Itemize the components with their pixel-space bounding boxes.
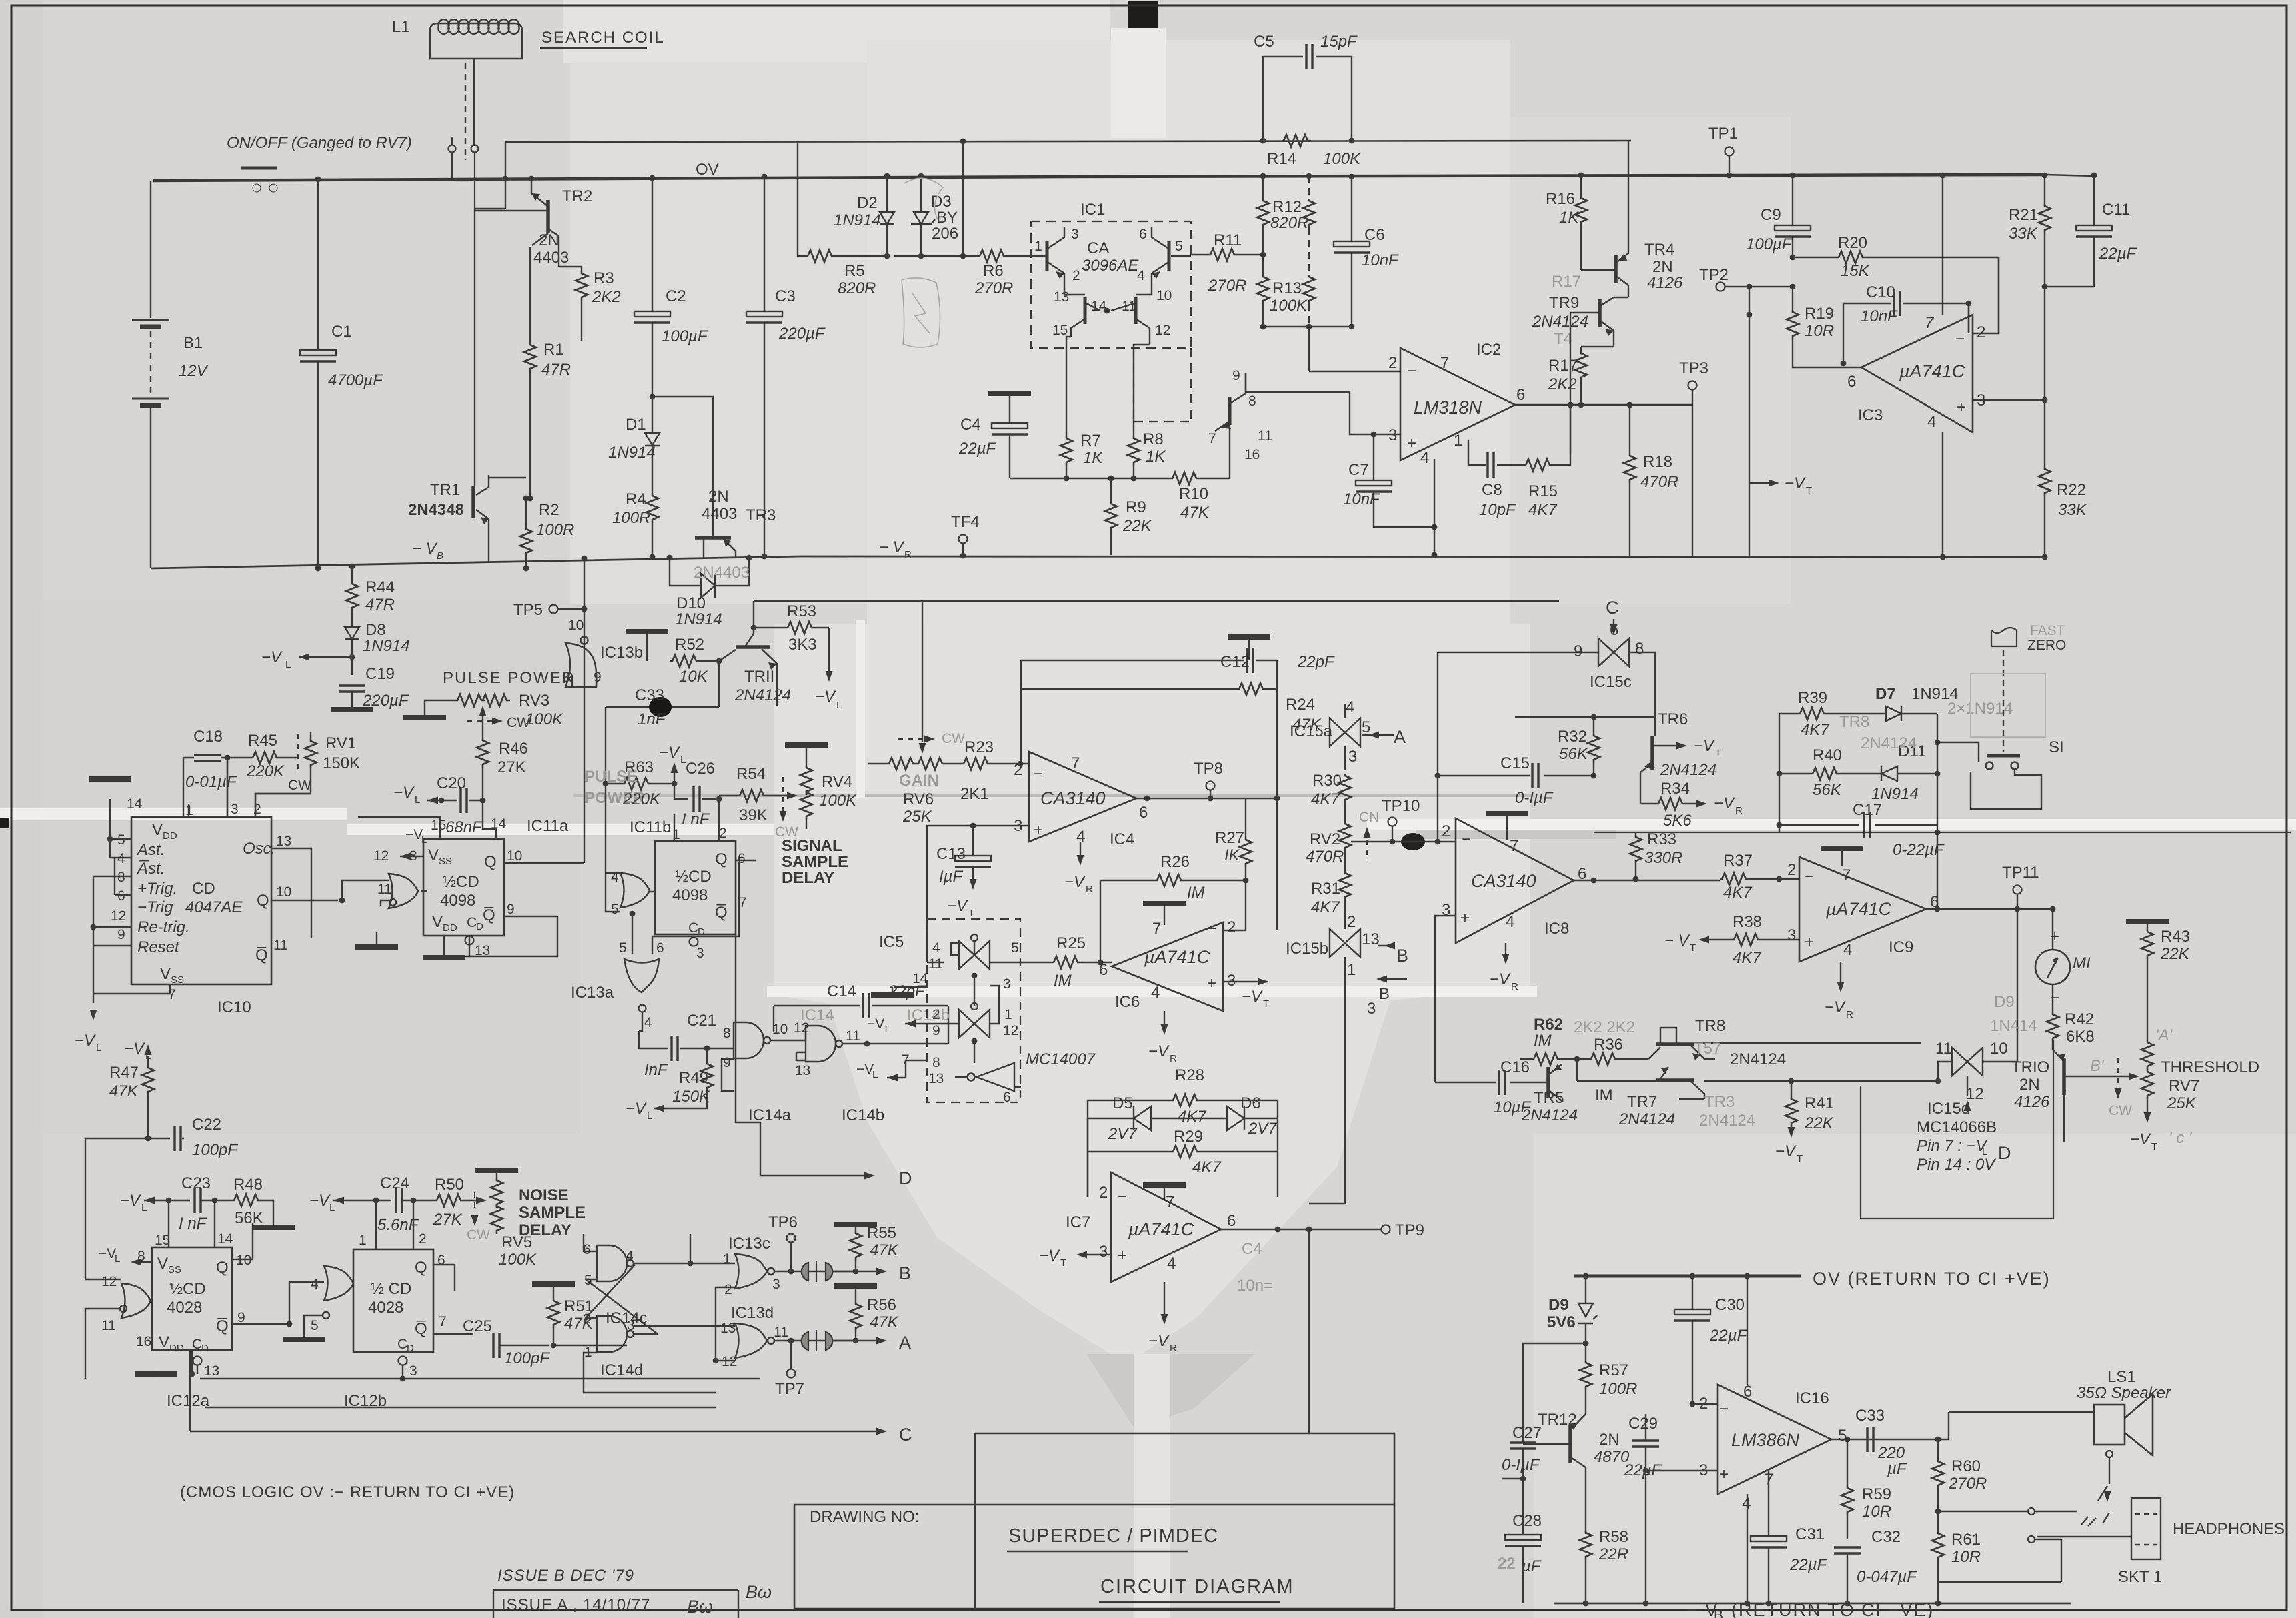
- svg-text:T: T: [1806, 485, 1812, 496]
- svg-text:V: V: [157, 1255, 168, 1273]
- svg-text:IC4: IC4: [1110, 830, 1134, 848]
- svg-text:TR6: TR6: [1658, 710, 1688, 728]
- svg-text:2: 2: [1347, 913, 1356, 931]
- svg-text:IC5: IC5: [879, 933, 904, 951]
- svg-text:R43: R43: [2161, 928, 2190, 946]
- svg-text:100µF: 100µF: [1746, 235, 1793, 253]
- svg-text:TR5: TR5: [1534, 1089, 1564, 1107]
- svg-text:C6: C6: [1364, 226, 1385, 244]
- svg-text:0-IµF: 0-IµF: [1515, 789, 1554, 807]
- SR cross wiring: [584, 1234, 735, 1393]
- svg-text:2N4124: 2N4124: [1730, 1050, 1786, 1068]
- IC12b box: [353, 1249, 433, 1352]
- svg-text:B: B: [1379, 985, 1390, 1003]
- speaker LS1: [1938, 1412, 2094, 1439]
- svg-text:6: 6: [1139, 227, 1147, 242]
- svg-text:4098: 4098: [440, 892, 475, 910]
- gate IC11b input nor: [620, 873, 650, 908]
- svg-text:TR8: TR8: [1839, 713, 1869, 731]
- svg-text:IC15d: IC15d: [1927, 1100, 1970, 1118]
- gate IC14c nand: [597, 1245, 634, 1281]
- svg-text:2K2 2K2: 2K2 2K2: [1574, 1018, 1635, 1036]
- svg-text:2N4124: 2N4124: [1699, 1112, 1755, 1130]
- switch coil contacts: [449, 137, 479, 209]
- svg-text:10nF: 10nF: [1861, 307, 1898, 325]
- svg-text:6: 6: [1003, 1090, 1011, 1105]
- svg-text:−V: −V: [405, 827, 423, 842]
- connector jack B: [802, 1261, 833, 1282]
- svg-text:C24: C24: [380, 1174, 409, 1192]
- svg-text:Q: Q: [415, 1259, 427, 1277]
- svg-text:IC11a: IC11a: [527, 817, 569, 835]
- svg-text:R36: R36: [1594, 1036, 1623, 1054]
- svg-text:MI: MI: [2073, 954, 2091, 972]
- svg-text:3: 3: [1388, 426, 1397, 444]
- svg-text:4K7: 4K7: [1192, 1158, 1222, 1176]
- svg-text:0-IµF: 0-IµF: [1502, 1456, 1540, 1474]
- svg-text:½CD: ½CD: [169, 1280, 206, 1298]
- svg-text:22K: 22K: [1122, 517, 1152, 535]
- svg-text:56K: 56K: [235, 1209, 263, 1227]
- battery B1 12V: [132, 181, 169, 568]
- svg-text:4K7: 4K7: [1311, 790, 1340, 808]
- svg-text:C13: C13: [936, 845, 966, 863]
- svg-text:R17: R17: [1552, 273, 1581, 291]
- svg-text:25K: 25K: [902, 808, 932, 826]
- svg-text:D8: D8: [365, 621, 386, 639]
- svg-text:−V: −V: [309, 1192, 331, 1210]
- svg-text:2N: 2N: [539, 231, 559, 249]
- svg-text:10: 10: [568, 618, 584, 633]
- svg-text:IC12a: IC12a: [167, 1392, 210, 1410]
- node -VL arrow left of D8: [299, 656, 352, 658]
- svg-text:IC15b: IC15b: [1286, 940, 1328, 958]
- svg-text:10: 10: [1990, 1040, 2008, 1058]
- svg-text:L: L: [421, 834, 427, 846]
- svg-text:4: 4: [1506, 913, 1514, 931]
- svg-text:4K7: 4K7: [1311, 898, 1340, 916]
- svg-text:SKT 1: SKT 1: [2118, 1568, 2162, 1586]
- switch IC15a: [1330, 718, 1360, 746]
- IC8 pin4 arrow: [1505, 943, 1506, 960]
- svg-text:14: 14: [491, 816, 507, 832]
- svg-text:DELAY: DELAY: [519, 1221, 571, 1239]
- svg-text:R27: R27: [1215, 829, 1244, 847]
- svg-text:−V: −V: [1694, 737, 1715, 755]
- pot RV6 25K (GAIN): [887, 758, 916, 770]
- svg-text:10nF: 10nF: [1343, 490, 1380, 508]
- svg-text:0-047µF: 0-047µF: [1857, 1568, 1917, 1586]
- resistor R47 47K: [142, 1066, 154, 1095]
- svg-text:R32: R32: [1558, 728, 1587, 746]
- svg-text:3: 3: [696, 946, 704, 961]
- svg-text:−: −: [1805, 868, 1814, 886]
- svg-text:R60: R60: [1951, 1457, 1981, 1475]
- svg-text:B1: B1: [183, 334, 203, 352]
- svg-text:100pF: 100pF: [192, 1141, 238, 1159]
- svg-text:12: 12: [722, 1354, 737, 1369]
- capacitor C6 10nF: [1351, 177, 1352, 327]
- svg-text:IC14d: IC14d: [600, 1361, 643, 1379]
- wire 0V rail: [153, 175, 2046, 181]
- svg-text:C32: C32: [1871, 1528, 1901, 1546]
- svg-text:2: 2: [724, 1282, 732, 1297]
- IC9 output: [1926, 908, 2053, 910]
- svg-text:8: 8: [932, 1055, 940, 1070]
- capacitor C4 22uF: [988, 393, 1031, 394]
- svg-text:22R: 22R: [1598, 1545, 1628, 1563]
- diode D2 1N914: [880, 176, 894, 256]
- wire Q6 out: [736, 860, 756, 861]
- svg-text:µA741C: µA741C: [1825, 899, 1892, 919]
- svg-text:1K: 1K: [1083, 449, 1103, 467]
- svg-text:µA741C: µA741C: [1899, 361, 1965, 381]
- collage seams (white): [0, 808, 347, 820]
- svg-text:R56: R56: [867, 1296, 896, 1314]
- socket SKT1 headphones: [2094, 1498, 2161, 1559]
- svg-text:C1: C1: [331, 323, 352, 341]
- feedback vertical to IC15b: [1276, 660, 1278, 930]
- svg-text:9: 9: [117, 927, 125, 942]
- capacitor C33 1nF (inked blob): [606, 706, 719, 708]
- resistor R28 4K7 loop: [1088, 1100, 1278, 1197]
- svg-text:C7: C7: [1348, 461, 1369, 479]
- svg-text:3: 3: [772, 1277, 780, 1292]
- wire TR8 collector line to D9 box: [1720, 1042, 1921, 1044]
- svg-text:R29: R29: [1174, 1128, 1203, 1146]
- svg-text:C20: C20: [437, 774, 466, 792]
- svg-text:1N914: 1N914: [834, 211, 881, 229]
- svg-text:R58: R58: [1599, 1528, 1628, 1546]
- svg-text:R8: R8: [1143, 430, 1164, 448]
- svg-text:470R: 470R: [1640, 473, 1678, 491]
- svg-text:SAMPLE: SAMPLE: [782, 853, 848, 871]
- wire IC16 out: [1831, 1439, 1938, 1440]
- svg-text:DRAWING NO:: DRAWING NO:: [810, 1508, 919, 1526]
- svg-text:3: 3: [1003, 976, 1011, 992]
- svg-text:47K: 47K: [870, 1313, 899, 1331]
- svg-text:12V: 12V: [179, 362, 209, 380]
- gate IC14b nand: [806, 1026, 842, 1062]
- wire 0V return rail: [1574, 1275, 1801, 1278]
- svg-text:11: 11: [846, 1028, 860, 1044]
- inductor L1 search coil: [430, 19, 522, 160]
- svg-text:InF: InF: [644, 1061, 668, 1079]
- wire IC12b Q6 out: [433, 1265, 473, 1334]
- svg-text:100K: 100K: [819, 792, 857, 810]
- svg-text:6: 6: [1139, 804, 1148, 822]
- svg-text:330R: 330R: [1644, 849, 1682, 867]
- power bar below C19: [331, 709, 373, 710]
- svg-text:DD: DD: [163, 830, 177, 842]
- wire -VB return rail: [1554, 1603, 2071, 1605]
- svg-text:R16: R16: [1546, 190, 1575, 208]
- svg-text:11: 11: [1122, 299, 1136, 314]
- transistor TR9 2N4124: [1570, 297, 1628, 347]
- svg-text:V: V: [160, 965, 171, 983]
- svg-text:R40: R40: [1813, 746, 1842, 764]
- svg-text:22pF: 22pF: [1297, 653, 1335, 671]
- svg-text:10: 10: [236, 1253, 251, 1268]
- svg-text:22µF: 22µF: [958, 440, 997, 458]
- transistor TR1 2N4348: [473, 209, 489, 562]
- svg-text:5: 5: [117, 832, 125, 848]
- svg-text:1N414: 1N414: [1990, 1017, 2037, 1035]
- svg-text:2: 2: [719, 826, 727, 841]
- svg-text:12: 12: [373, 848, 389, 864]
- svg-text:µF: µF: [1887, 1460, 1907, 1478]
- svg-text:A: A: [1394, 727, 1406, 747]
- svg-text:7: 7: [1152, 920, 1161, 938]
- svg-text:R3: R3: [594, 269, 614, 287]
- svg-text:T: T: [2151, 1141, 2157, 1152]
- capacitor C3 220uF: [764, 177, 765, 556]
- svg-text:TP1: TP1: [1708, 125, 1738, 143]
- svg-text:−Trig: −Trig: [137, 898, 173, 916]
- svg-text:15pF: 15pF: [1320, 33, 1358, 51]
- box around lower right section: [1861, 1040, 2053, 1219]
- svg-text:10nF: 10nF: [1362, 251, 1399, 269]
- wire IC2 pin3 input: [1246, 392, 1400, 434]
- svg-text:B: B: [1714, 1608, 1723, 1618]
- capacitor C15 0.1uF: [1438, 775, 1594, 776]
- svg-text:TP11: TP11: [2002, 864, 2039, 882]
- svg-text:IC15a: IC15a: [1290, 722, 1333, 740]
- switch S ON/OFF: [241, 168, 277, 192]
- svg-text:100K: 100K: [1270, 297, 1308, 315]
- op-amp IC6 uA741C: [1112, 922, 1223, 1011]
- svg-text:2N: 2N: [2019, 1076, 2040, 1094]
- svg-text:−V: −V: [75, 1032, 96, 1050]
- svg-text:CD: CD: [192, 880, 215, 898]
- svg-text:56K: 56K: [1813, 781, 1842, 799]
- svg-text:CW: CW: [467, 1227, 490, 1243]
- svg-text:Pin 14 : 0V: Pin 14 : 0V: [1917, 1156, 1996, 1174]
- svg-text:16: 16: [136, 1334, 151, 1349]
- svg-text:6: 6: [656, 940, 664, 956]
- svg-text:OV (RETURN TO CI +VE): OV (RETURN TO CI +VE): [1813, 1269, 2051, 1289]
- svg-text:1: 1: [723, 1251, 731, 1267]
- ghost pencil sketch near D3: [902, 178, 943, 347]
- wire C2 branch to TR3 collector: [652, 397, 713, 537]
- svg-text:R14: R14: [1267, 150, 1296, 168]
- svg-text:12: 12: [1155, 323, 1170, 338]
- wire C line: [190, 1431, 884, 1432]
- wire IC13c/d cross inputs: [634, 1287, 735, 1361]
- resistor R44 47R: [346, 582, 358, 611]
- svg-text:R: R: [1170, 1343, 1177, 1354]
- svg-text:4700µF: 4700µF: [328, 371, 383, 389]
- svg-text:11: 11: [1258, 428, 1272, 444]
- svg-text:3: 3: [1367, 1000, 1376, 1018]
- capacitor C19 220uF: [339, 686, 365, 692]
- IC5 gate 1 (bowtie): [959, 941, 990, 969]
- resistor R8 1K: [1128, 436, 1140, 466]
- wire pin3 node down through R22: [2044, 287, 2045, 467]
- svg-text:+: +: [1034, 821, 1043, 839]
- svg-text:7: 7: [1842, 866, 1851, 884]
- svg-text:220: 220: [1877, 1444, 1905, 1462]
- svg-text:5K6: 5K6: [1663, 812, 1692, 830]
- gate IC13c: [735, 1254, 774, 1289]
- svg-text:C28: C28: [1512, 1512, 1542, 1530]
- svg-text:7: 7: [1208, 431, 1216, 446]
- svg-text:C25: C25: [463, 1317, 492, 1335]
- resistor R52 10K: [670, 655, 700, 667]
- resistor R63 220K (PULSE POWER feed): [606, 707, 674, 784]
- svg-text:T: T: [968, 908, 974, 919]
- svg-text:Q: Q: [484, 853, 497, 871]
- svg-text:R17: R17: [1548, 357, 1578, 375]
- svg-text:D: D: [476, 921, 483, 932]
- svg-text:1N914: 1N914: [363, 637, 410, 655]
- svg-text:−V: −V: [1825, 998, 1846, 1016]
- svg-text:6: 6: [117, 888, 125, 904]
- svg-text:C30: C30: [1715, 1296, 1745, 1314]
- svg-text:2N: 2N: [1599, 1431, 1620, 1449]
- svg-text:10R: 10R: [1951, 1548, 1981, 1566]
- op-amp IC2 LM318N: [1400, 348, 1515, 460]
- svg-text:4K7: 4K7: [1733, 949, 1762, 967]
- svg-text:3: 3: [1787, 926, 1796, 944]
- pot RV5 100K: [475, 1170, 518, 1171]
- svg-text:2N4124: 2N4124: [1861, 734, 1917, 752]
- svg-text:R33: R33: [1647, 830, 1676, 848]
- resistor R12 820R: [1257, 199, 1269, 228]
- capacitor C31 22uF: [1751, 1536, 1787, 1547]
- resistor R21 33K: [2039, 204, 2051, 233]
- svg-text:1: 1: [1034, 239, 1042, 254]
- svg-text:8: 8: [723, 1026, 731, 1041]
- svg-text:3: 3: [1348, 748, 1357, 766]
- svg-text:270R: 270R: [1208, 277, 1246, 295]
- svg-text:33K: 33K: [2009, 225, 2038, 243]
- svg-text:SAMPLE: SAMPLE: [519, 1204, 586, 1222]
- svg-text:R62: R62: [1534, 1016, 1563, 1034]
- svg-text:R39: R39: [1798, 689, 1827, 707]
- svg-text:2N4124: 2N4124: [1618, 1110, 1675, 1128]
- svg-text:L: L: [115, 1253, 120, 1265]
- node -VL arrow at C23: [144, 1197, 155, 1204]
- svg-text:2N4124: 2N4124: [734, 686, 791, 704]
- svg-text:B: B: [1396, 946, 1408, 966]
- svg-text:D6: D6: [1240, 1094, 1261, 1112]
- svg-text:13: 13: [720, 1321, 736, 1336]
- IC11a wires: [358, 637, 584, 863]
- svg-text:+: +: [1957, 398, 1966, 416]
- svg-text:4: 4: [117, 851, 125, 866]
- svg-text:220µF: 220µF: [362, 692, 409, 710]
- svg-text:R52: R52: [675, 636, 704, 654]
- svg-text:Re-trig.: Re-trig.: [137, 918, 190, 936]
- op-amp IC4 CA3140: [1029, 752, 1136, 842]
- svg-text:R24: R24: [1286, 696, 1315, 714]
- capacitor C16 10uF: [1435, 1082, 1548, 1083]
- svg-text:C4: C4: [1242, 1240, 1262, 1258]
- svg-text:IC13b: IC13b: [600, 644, 643, 662]
- svg-text:R61: R61: [1951, 1531, 1981, 1549]
- svg-text:RV7: RV7: [2169, 1077, 2199, 1095]
- svg-text:4126: 4126: [1647, 274, 1683, 292]
- svg-text:4: 4: [1927, 413, 1936, 431]
- svg-text:7: 7: [1166, 1193, 1174, 1211]
- svg-text:DD: DD: [443, 922, 457, 934]
- svg-text:TP8: TP8: [1194, 760, 1223, 778]
- svg-text:11: 11: [774, 1325, 788, 1340]
- title block: [794, 1433, 1394, 1610]
- svg-text:15: 15: [431, 818, 446, 833]
- resistor R19 10R: [1787, 310, 1799, 339]
- resistor R38 4K7: [1732, 934, 1761, 946]
- diodes D5 D6 2V7: [1088, 1118, 1278, 1119]
- svg-text:4: 4: [1420, 449, 1429, 467]
- svg-text:56K: 56K: [1559, 745, 1588, 763]
- svg-text:IC6: IC6: [1115, 993, 1140, 1011]
- wire IC13c out / TP6 / jack / B: [774, 1271, 856, 1272]
- IC11a box: [423, 839, 504, 936]
- resistor R34 5K6: [1656, 798, 1686, 810]
- resistor R31 4K7: [1339, 871, 1351, 900]
- IC16 wires: [1646, 1276, 1769, 1603]
- svg-text:2N4124: 2N4124: [1660, 761, 1716, 779]
- svg-text:TR12: TR12: [1538, 1411, 1577, 1429]
- resistor R49 150K: [701, 1062, 713, 1091]
- resistor R9 22K: [1105, 502, 1117, 531]
- wire TR1 collector: [489, 477, 526, 478]
- svg-text:TRII: TRII: [744, 668, 774, 686]
- IC6 pin7 power bar: [1143, 903, 1186, 904]
- wire TR7 line to R41/IC15d: [1704, 1080, 1938, 1082]
- svg-text:R34: R34: [1660, 780, 1690, 798]
- svg-text:13: 13: [475, 943, 490, 958]
- svg-text:100R: 100R: [536, 521, 574, 539]
- svg-text:V: V: [159, 1333, 169, 1351]
- resistor R13 100K: [1257, 275, 1269, 304]
- svg-text:A: A: [899, 1333, 911, 1353]
- svg-text:−V: −V: [1039, 1247, 1060, 1265]
- svg-text:½CD: ½CD: [443, 873, 479, 891]
- svg-text:5.6nF: 5.6nF: [377, 1216, 419, 1234]
- svg-text:5: 5: [1011, 940, 1019, 956]
- svg-text:2: 2: [1099, 1184, 1108, 1202]
- svg-text:R: R: [1170, 1053, 1177, 1064]
- op-amp IC9 uA741C: [1799, 857, 1926, 962]
- resistor R43 22K: [2126, 921, 2169, 922]
- svg-text:2: 2: [1442, 822, 1450, 840]
- resistor R2 100R: [520, 527, 532, 556]
- svg-text:C11: C11: [2102, 201, 2130, 219]
- capacitor C10 10nF: [1843, 303, 1969, 363]
- op-amp IC8 CA3140: [1456, 818, 1574, 943]
- resistor R26 1M loop: [1100, 880, 1246, 962]
- svg-text:R53: R53: [787, 602, 816, 620]
- svg-text:9: 9: [594, 670, 602, 685]
- svg-text:2N: 2N: [1652, 258, 1673, 276]
- svg-text:C2: C2: [666, 287, 686, 305]
- IC6 pin4 arrow -VR: [1164, 1011, 1165, 1031]
- svg-text:1nF: 1nF: [638, 710, 666, 728]
- svg-text:2: 2: [1014, 761, 1022, 779]
- svg-text:R48: R48: [233, 1176, 263, 1194]
- svg-text:15K: 15K: [1841, 262, 1870, 280]
- svg-text:22µF: 22µF: [1789, 1556, 1828, 1574]
- svg-text:47K: 47K: [109, 1082, 139, 1100]
- IC12a box: [152, 1247, 232, 1350]
- svg-text:C26: C26: [686, 760, 715, 778]
- svg-text:D1: D1: [626, 416, 646, 434]
- resistor R54 39K: [738, 790, 767, 802]
- svg-text:−V: −V: [1490, 970, 1511, 988]
